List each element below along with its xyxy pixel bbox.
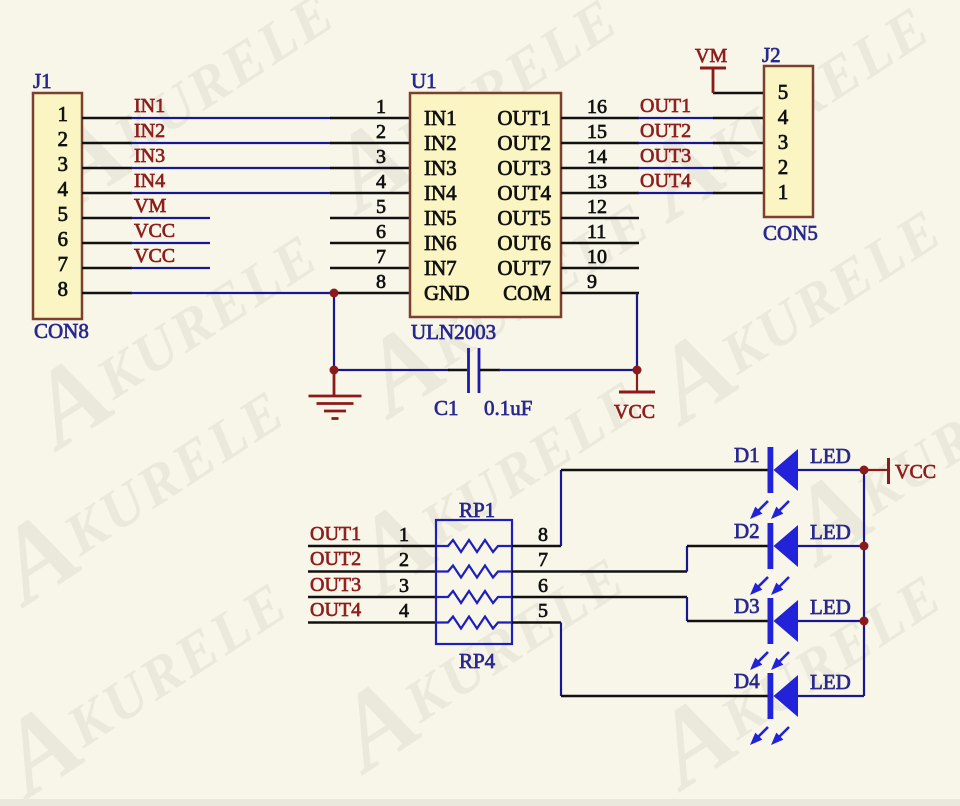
svg-text:3: 3: [58, 152, 69, 176]
svg-text:RP1: RP1: [459, 498, 495, 522]
wire OUT2 net: [638, 142, 714, 144]
wire riser to D2: [687, 545, 768, 547]
wire IN1 net: [131, 117, 331, 119]
svg-text:1: 1: [399, 524, 409, 546]
svg-text:1: 1: [58, 102, 69, 126]
svg-text:VM: VM: [134, 195, 166, 217]
svg-text:OUT2: OUT2: [497, 131, 551, 155]
svg-text:4: 4: [376, 171, 386, 193]
svg-text:IN2: IN2: [134, 120, 165, 142]
U1 left pin numbers 1-8: [376, 96, 386, 293]
wire pin6 dropper: [686, 597, 688, 621]
svg-text:C1: C1: [434, 396, 459, 420]
U1 pin names right column: [497, 106, 551, 305]
svg-text:IN7: IN7: [424, 256, 457, 280]
svg-text:OUT2: OUT2: [640, 120, 691, 142]
wire pin8 riser: [560, 470, 562, 546]
J2 pin stubs: [713, 93, 764, 193]
junction node bus D1: [860, 466, 869, 475]
svg-text:1: 1: [376, 96, 386, 118]
svg-text:8: 8: [538, 524, 548, 546]
svg-text:14: 14: [587, 146, 607, 168]
wire dropper to D4: [561, 695, 768, 697]
svg-text:5: 5: [376, 196, 386, 218]
svg-text:2: 2: [58, 127, 69, 151]
D2 emission arrows: [751, 577, 789, 594]
svg-text:4: 4: [399, 600, 409, 622]
svg-text:5: 5: [538, 600, 548, 622]
svg-text:OUT4: OUT4: [640, 170, 691, 192]
wire pin5 dropper: [560, 623, 562, 697]
junction node ground rail: [330, 366, 339, 375]
svg-text:VCC: VCC: [134, 220, 175, 242]
wire D1 to bus: [798, 469, 864, 471]
wire OUT3 to RP1: [308, 596, 436, 598]
svg-text:CON5: CON5: [763, 221, 818, 245]
svg-text:VCC: VCC: [895, 461, 936, 483]
wire OUT2 to RP1: [308, 570, 436, 572]
wire GND net pin8: [131, 292, 334, 294]
svg-text:7: 7: [538, 549, 548, 571]
svg-text:15: 15: [587, 121, 607, 143]
wire dropper to D3: [687, 620, 768, 622]
svg-text:D3: D3: [734, 594, 760, 618]
wire C1 to VCC node: [499, 369, 637, 371]
wire row8 to ground rail: [333, 293, 335, 370]
power symbol VCC bottom: [619, 370, 655, 392]
svg-text:7: 7: [376, 246, 386, 268]
op IC U1 box: [410, 93, 561, 317]
svg-text:ULN2003: ULN2003: [411, 320, 496, 344]
wire D4 to bus: [798, 695, 864, 697]
svg-text:RP4: RP4: [459, 649, 496, 673]
power symbol VM bar: [700, 67, 726, 70]
svg-text:COM: COM: [503, 281, 551, 305]
wire D2 to bus: [798, 545, 864, 547]
RP1 right pin numbers: [538, 524, 548, 622]
U1 right pin numbers 16-9: [587, 96, 607, 293]
svg-text:GND: GND: [424, 281, 470, 305]
svg-text:IN2: IN2: [424, 131, 457, 155]
C1 right pin: [480, 369, 500, 371]
J1 pin stubs: [82, 118, 132, 293]
wire OUT4 to RP1: [308, 621, 436, 623]
svg-text:CON8: CON8: [34, 319, 89, 343]
svg-text:IN6: IN6: [424, 231, 457, 255]
svg-text:6: 6: [538, 575, 548, 597]
svg-text:8: 8: [58, 277, 69, 301]
resistor R element 4: [436, 617, 512, 629]
svg-text:OUT2: OUT2: [310, 548, 361, 570]
wire IN3 net: [131, 167, 331, 169]
VCC bus vertical: [863, 470, 865, 696]
svg-text:1: 1: [778, 180, 789, 204]
svg-text:J2: J2: [762, 43, 781, 67]
J1 pin numbers 1-8: [58, 102, 69, 301]
svg-text:OUT3: OUT3: [497, 156, 551, 180]
svg-text:6: 6: [58, 227, 69, 251]
svg-text:6: 6: [376, 221, 386, 243]
ground symbol: [309, 370, 362, 419]
wire IN4 net: [131, 192, 331, 194]
D3 emission arrows: [751, 652, 789, 669]
wire OUT1 to RP1: [308, 545, 436, 547]
svg-text:13: 13: [587, 171, 607, 193]
resistor pack RP1 box: [436, 520, 512, 644]
svg-text:11: 11: [587, 221, 606, 243]
svg-text:3: 3: [399, 575, 409, 597]
wire pin6 out: [512, 596, 687, 598]
wire pin7 riser: [686, 546, 688, 572]
junction node GND row8: [330, 289, 339, 298]
svg-text:IN4: IN4: [134, 170, 165, 192]
wire VCC net pin6: [131, 242, 210, 244]
junction node bus D3: [860, 617, 869, 626]
svg-text:OUT1: OUT1: [497, 106, 551, 130]
resistor R element 2: [436, 566, 512, 578]
svg-text:J1: J1: [33, 69, 52, 93]
svg-text:VM: VM: [695, 45, 727, 67]
svg-text:LED: LED: [810, 670, 851, 694]
svg-text:OUT6: OUT6: [497, 231, 551, 255]
svg-text:7: 7: [58, 252, 69, 276]
svg-text:2: 2: [376, 121, 386, 143]
bottom gray band: [0, 799, 960, 806]
svg-text:VCC: VCC: [134, 245, 175, 267]
svg-text:OUT4: OUT4: [310, 599, 361, 621]
svg-text:IN4: IN4: [424, 181, 457, 205]
LED D4: [768, 673, 799, 719]
wire VCC net pin7: [131, 267, 210, 269]
junction node bus D2: [860, 542, 869, 551]
svg-text:IN3: IN3: [134, 145, 165, 167]
wire IN2 net: [131, 142, 331, 144]
wire pin9 to VCC node: [636, 293, 638, 370]
svg-text:LED: LED: [810, 595, 851, 619]
svg-text:VCC: VCC: [614, 401, 655, 423]
wire VM net: [131, 217, 210, 219]
svg-text:D4: D4: [734, 669, 760, 693]
svg-text:3: 3: [376, 146, 386, 168]
RP1 left pin numbers: [399, 524, 409, 622]
wire pin5 out: [512, 621, 561, 623]
U1 right pin stubs: [561, 118, 639, 293]
svg-text:OUT1: OUT1: [310, 523, 361, 545]
VM stem wire: [712, 68, 715, 93]
svg-text:IN1: IN1: [134, 95, 165, 117]
resistor R element 3: [436, 591, 512, 603]
svg-text:U1: U1: [411, 69, 437, 93]
svg-text:OUT7: OUT7: [497, 256, 551, 280]
wire OUT1 net: [638, 117, 714, 119]
svg-text:OUT3: OUT3: [640, 145, 691, 167]
connector J2: [764, 66, 813, 217]
svg-text:4: 4: [778, 105, 789, 129]
junction node VCC rail: [633, 366, 642, 375]
svg-text:10: 10: [587, 246, 607, 268]
D1 emission arrows: [751, 501, 789, 518]
connector J1: [33, 93, 82, 319]
resistor R element 1: [436, 540, 512, 552]
svg-text:LED: LED: [810, 520, 851, 544]
svg-text:OUT4: OUT4: [497, 181, 551, 205]
svg-text:5: 5: [58, 202, 69, 226]
wire pin8 out: [512, 545, 561, 547]
capacitor C1: [469, 348, 480, 393]
wire ground rail to C1: [334, 369, 449, 371]
svg-text:0.1uF: 0.1uF: [484, 396, 532, 420]
svg-text:4: 4: [58, 177, 69, 201]
svg-text:D2: D2: [734, 519, 760, 543]
J2 pin numbers 5-1: [778, 80, 789, 204]
wire D3 to bus: [798, 620, 864, 622]
svg-text:OUT5: OUT5: [497, 206, 551, 230]
U1 pin names left column: [424, 106, 470, 305]
svg-text:12: 12: [587, 196, 607, 218]
svg-text:D1: D1: [734, 443, 760, 467]
D4 emission arrows: [751, 727, 789, 744]
wire riser to D1: [561, 469, 768, 471]
wire pin7 out: [512, 570, 687, 572]
svg-text:2: 2: [399, 549, 409, 571]
svg-text:16: 16: [587, 96, 607, 118]
svg-text:OUT3: OUT3: [310, 574, 361, 596]
svg-text:LED: LED: [810, 444, 851, 468]
svg-text:OUT1: OUT1: [640, 95, 691, 117]
U1 left pin stubs: [330, 118, 410, 293]
wire OUT3 net: [638, 167, 714, 169]
svg-text:3: 3: [778, 130, 789, 154]
wire OUT4 net: [638, 192, 714, 194]
C1 left pin: [448, 369, 467, 371]
LED D3: [768, 598, 799, 644]
svg-text:9: 9: [587, 271, 597, 293]
svg-text:8: 8: [376, 271, 386, 293]
svg-text:IN1: IN1: [424, 106, 457, 130]
power symbol VCC right: [887, 458, 890, 484]
svg-text:2: 2: [778, 155, 789, 179]
svg-text:IN3: IN3: [424, 156, 457, 180]
wire bus to VCC symbol: [864, 469, 887, 471]
svg-text:5: 5: [778, 80, 789, 104]
svg-text:IN5: IN5: [424, 206, 457, 230]
LED D1: [768, 447, 799, 493]
LED D2: [768, 523, 799, 569]
